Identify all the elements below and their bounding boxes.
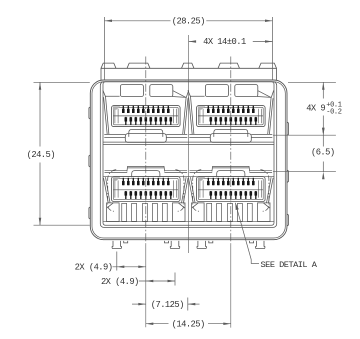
svg-text:4X 14±0.1: 4X 14±0.1: [203, 37, 246, 47]
port upper-right: [188, 85, 274, 143]
dimension 4X 9 +0.1/-0.2: [273, 82, 342, 135]
centerline left port: [145, 57, 147, 246]
dimension (7.125): [132, 298, 200, 311]
svg-text:(24.5): (24.5): [27, 150, 55, 160]
centerline right port: [230, 57, 232, 246]
dimension 2X (4.9) first: [75, 252, 146, 273]
port lower-left: [104, 166, 189, 221]
svg-text:-0.2: -0.2: [326, 108, 341, 116]
bezel inner window: [100, 82, 276, 228]
centerline middle: [188, 35, 190, 253]
svg-text:(28.25): (28.25): [172, 16, 205, 26]
mounting feet: [112, 241, 265, 249]
svg-text:2X (4.9): 2X (4.9): [101, 277, 139, 287]
lower rail lines: [103, 176, 274, 178]
svg-text:(7.125): (7.125): [151, 300, 184, 310]
dimension 2X (4.9) second: [101, 273, 175, 287]
dimension (28.25): [105, 16, 273, 79]
svg-text:SEE DETAIL A: SEE DETAIL A: [261, 260, 318, 270]
dimension (14.25): [146, 319, 231, 329]
bezel outer flange: [90, 80, 287, 240]
cage top edge: [101, 63, 277, 80]
bottom edge nubs: [124, 241, 128, 243]
port lower-right: [189, 166, 274, 221]
leader SEE DETAIL A: [235, 203, 317, 270]
svg-text:(6.5): (6.5): [311, 147, 335, 157]
port upper-left: [103, 85, 189, 143]
mid rail lines: [103, 141, 274, 143]
svg-text:(14.25): (14.25): [172, 319, 205, 329]
svg-text:2X (4.9): 2X (4.9): [75, 263, 113, 273]
bezel side emi tabs: [89, 107, 289, 226]
dimension 4X 14±0.1: [189, 37, 273, 47]
dimension (6.5): [273, 128, 336, 180]
svg-text:4X 9: 4X 9: [306, 103, 325, 113]
dimension (24.5): [27, 82, 90, 225]
